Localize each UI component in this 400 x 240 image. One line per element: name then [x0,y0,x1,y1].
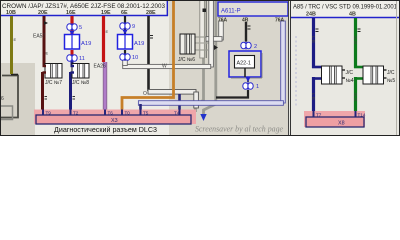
svg-text:11: 11 [79,56,85,62]
svg-text:T2: T2 [73,111,79,116]
svg-text:X3: X3 [111,118,118,124]
svg-text:T14: T14 [358,113,366,118]
svg-text:76A: 76A [218,18,228,24]
svg-text:J/C №8: J/C №8 [72,80,89,86]
svg-text:W: W [162,64,167,70]
svg-text:J/C: J/C [387,70,395,76]
svg-text:A611-P: A611-P [221,9,241,15]
svg-text:T0: T0 [125,111,131,116]
svg-text:20E: 20E [38,10,48,16]
svg-text:24B: 24B [306,12,316,18]
svg-text:Диагностический разъем DLC3: Диагностический разъем DLC3 [54,125,157,134]
svg-text:T9: T9 [46,111,52,116]
svg-text:16E: 16E [66,10,76,16]
svg-text:T4: T4 [174,111,180,116]
svg-text:6E: 6E [121,10,128,16]
svg-text:E: E [46,51,49,56]
svg-text:10: 10 [132,55,138,61]
svg-text:76A: 76A [275,18,285,24]
svg-text:T6: T6 [108,111,114,116]
svg-text:A22-1: A22-1 [237,61,251,67]
svg-text:A19: A19 [81,41,91,47]
svg-text:G-O: G-O [353,93,358,102]
svg-text:EA26: EA26 [94,64,106,70]
svg-text:X8: X8 [338,121,345,127]
svg-text:J/C №7: J/C №7 [45,80,62,86]
svg-text:EA57: EA57 [33,34,45,40]
svg-text:№5: №5 [387,78,395,84]
svg-text:5: 5 [79,25,82,31]
svg-text:G-O: G-O [353,36,358,45]
svg-text:CROWN /JAP/ JZS17#, A650E: CROWN /JAP/ JZS17#, A650E 2JZ-FSE 08.200… [2,3,165,10]
svg-text:Screensaver by al tech page: Screensaver by al tech page [195,123,283,133]
svg-text:19E: 19E [101,10,111,16]
svg-text:J/C №6: J/C №6 [178,57,195,63]
svg-text:6: 6 [1,96,4,102]
svg-text:J/C: J/C [346,70,354,76]
svg-text:L-B: L-B [311,36,316,43]
svg-text:2: 2 [254,44,257,50]
svg-text:28E: 28E [146,10,156,16]
svg-text:L-B: L-B [311,93,316,100]
svg-text:1: 1 [256,84,259,90]
svg-text:10B: 10B [6,10,16,16]
svg-text:9: 9 [132,24,135,30]
svg-text:E: E [14,37,17,42]
svg-text:№4: №4 [346,78,354,84]
svg-text:A19: A19 [134,41,144,47]
svg-text:A85 / TRC / VSC STD 09.1999-: A85 / TRC / VSC STD 09.1999-01.2001 [293,4,397,11]
svg-text:T7: T7 [316,113,322,118]
svg-text:4B: 4B [349,12,356,18]
svg-text:O: O [143,91,147,97]
svg-text:T5: T5 [143,111,149,116]
svg-text:E: E [106,29,109,34]
